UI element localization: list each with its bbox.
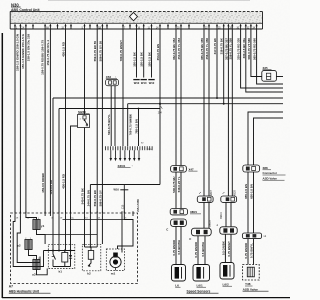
wire to ground W10 #1 xyxy=(136,29,138,78)
wire pin14 to node Z54 xyxy=(159,29,161,185)
wire W16 rail horizontal xyxy=(90,184,160,186)
ground W10 #3 xyxy=(148,79,154,81)
page frame bottom border xyxy=(2,297,290,299)
node junction branch xyxy=(138,108,140,110)
wire x1 to Y38 right xyxy=(253,239,255,265)
wire X35 out to right edge xyxy=(276,76,283,78)
wire pin23 to X84/7 xyxy=(208,29,210,196)
wire pin29 to X82/8 xyxy=(231,29,233,196)
wire W16 stem down xyxy=(123,190,125,213)
wire pin25 to bus xyxy=(216,29,218,98)
branch wire 15 horizontal xyxy=(59,108,160,110)
wire pin10 down xyxy=(96,29,98,213)
wire pin30 to right edge xyxy=(241,29,283,88)
solenoid valve y3 xyxy=(33,260,40,270)
wire pin22 to X84/7 xyxy=(203,29,205,196)
connector X88 xyxy=(243,165,260,172)
relay k2 box xyxy=(82,244,101,270)
wire C to sensor L6/2 right xyxy=(230,234,232,262)
page frame top edge xyxy=(48,0,250,2)
relay k1 diode xyxy=(70,251,72,256)
wire branch corner down to X30/1 xyxy=(138,109,140,147)
speed sensor L6/2 xyxy=(220,263,234,280)
speed sensor L6 xyxy=(172,265,186,282)
wire pin2 to hydraulic unit xyxy=(14,29,16,213)
wire A7 internal loop 2 xyxy=(17,216,40,263)
N30 connector pins with pin numbers xyxy=(14,24,16,29)
wire pin3 to hydraulic unit xyxy=(19,29,21,213)
solenoid valve y1 xyxy=(33,220,40,230)
relay k1 contact xyxy=(53,251,56,260)
wire k1 bottom rail xyxy=(53,266,71,268)
wire x1 to Y38 left xyxy=(247,239,249,265)
connector X47 xyxy=(171,166,187,173)
connector C of sensor L6/1 xyxy=(191,228,211,236)
wire C to sensor L6 right xyxy=(180,226,182,264)
wire pin32 to X35 xyxy=(251,29,262,77)
wire S9/30 output down xyxy=(84,128,86,214)
wire A7 extra tick 1 xyxy=(121,211,123,216)
wire X82/8 to C right xyxy=(230,202,232,226)
wire pin20 to X47 xyxy=(175,29,177,166)
wire y2 out xyxy=(29,250,37,260)
wire X84/7 to C right xyxy=(208,202,210,228)
wire from right edge to X88 pin1 xyxy=(248,112,283,165)
wire pin12 down xyxy=(101,29,103,213)
wire pin4 to hydraulic unit xyxy=(25,29,27,213)
wire X47 to X88/1 left xyxy=(175,172,177,208)
solenoid valve Y38 xyxy=(243,265,260,281)
ABS hydraulic unit pin ticks xyxy=(14,211,16,216)
relay k2 coil xyxy=(88,251,93,260)
wire to ground W10 #2 xyxy=(143,29,145,78)
wire pin21 to X47 xyxy=(180,29,182,166)
wire A7 internal left loop xyxy=(13,216,43,267)
node Z54 junction dot xyxy=(159,103,161,105)
wire k1 feed rail xyxy=(44,250,75,252)
bus wire 31 left corner down to X30/1 xyxy=(127,104,129,146)
wire X53 out left down xyxy=(110,86,112,146)
wire A7 top rail xyxy=(63,219,134,221)
wire y3 out xyxy=(37,269,48,275)
motor m1 xyxy=(110,256,121,267)
connector x1 of ASD valve xyxy=(242,233,261,239)
wire rail risers xyxy=(52,216,54,251)
ground W10 #2 xyxy=(141,79,147,81)
wire C to sensor L6 left xyxy=(175,226,177,264)
relay k2 top rail xyxy=(85,246,98,248)
relay k1 box xyxy=(48,244,75,268)
speed sensor L6/1 xyxy=(193,265,210,282)
node junction pin26 on bus xyxy=(223,103,225,105)
wire X47 to X88/1 right xyxy=(180,172,182,208)
wire C to sensor L6/2 left xyxy=(224,234,226,262)
wire m1 feeds xyxy=(121,216,123,253)
wire k2 feeds xyxy=(84,216,86,247)
bus wire 30 horizontal xyxy=(53,97,283,99)
wire X84/7 to C left xyxy=(203,202,205,228)
wire X82/8 to C left xyxy=(225,202,227,226)
solenoid valve y2 xyxy=(25,240,32,250)
motor m1 box xyxy=(106,249,124,271)
wire A7 internal y1 feed xyxy=(26,216,37,220)
connector X30/1 pin strip xyxy=(105,146,107,150)
wire X88 to x1 left xyxy=(247,172,249,233)
connector X84/7 xyxy=(199,192,201,194)
wire A7 extra tick 2 xyxy=(132,211,134,216)
wire pin5 to switch S9/30 xyxy=(84,29,86,115)
wire X53 out right down xyxy=(114,86,116,146)
node junction pin25 on bus xyxy=(216,97,218,99)
connector X30/1 arrows xyxy=(110,150,112,158)
wire y1 out xyxy=(37,230,46,245)
wire pin6 to hydraulic unit xyxy=(44,29,46,213)
wire pin15 to hydraulic unit xyxy=(65,29,67,213)
relay k1 coil xyxy=(62,253,68,263)
bus wire 31 horizontal xyxy=(128,103,283,105)
connector X88/1 xyxy=(170,209,187,215)
wire from right edge to X88 pin2 xyxy=(254,118,284,165)
wire pin26 to bus xyxy=(223,29,225,104)
connector C of sensor L6 xyxy=(171,219,187,226)
ABS control unit N30 body xyxy=(10,11,262,23)
wire m1 stem xyxy=(115,268,117,271)
wire pin34 to right edge xyxy=(257,29,283,84)
motor m1 brush xyxy=(113,253,118,258)
ground W10 #1 xyxy=(133,79,139,81)
wire pin28 to X82/8 xyxy=(227,29,229,196)
wire pin7 to hydraulic unit xyxy=(49,29,51,213)
diamond symbol on N30 xyxy=(130,12,138,20)
wire C to sensor L6/1 right xyxy=(204,236,206,265)
wire X88 to x1 right xyxy=(253,172,255,233)
wire pin31 to right edge xyxy=(246,29,283,92)
connector X82/8 xyxy=(223,192,225,194)
wire to ground W10 #3 xyxy=(151,29,153,78)
connector C of sensor L6/2 xyxy=(220,227,237,234)
wire S9/30 branch left down xyxy=(71,126,78,213)
ABS hydraulic unit A7 box xyxy=(11,213,138,284)
wire pin7b down xyxy=(122,29,124,146)
page frame left border xyxy=(1,33,3,298)
wire C to sensor L6/1 left xyxy=(197,236,199,265)
